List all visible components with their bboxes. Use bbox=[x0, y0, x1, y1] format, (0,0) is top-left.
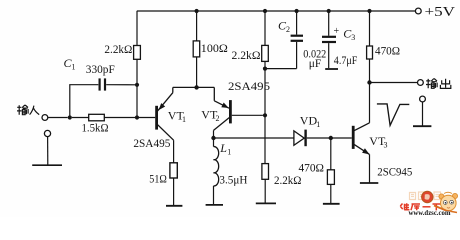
wire: 1.5k to node B bbox=[104, 117, 137, 119]
svg-text:2: 2 bbox=[286, 25, 290, 34]
svg-text:+: + bbox=[334, 26, 340, 37]
terminal +5V bbox=[415, 8, 421, 14]
svg-text:330pF: 330pF bbox=[86, 62, 115, 76]
svg-text:2: 2 bbox=[216, 114, 220, 123]
node: rail junction R4 bbox=[367, 9, 371, 13]
red circle emblem bbox=[422, 191, 433, 202]
resistor R2h 1.5kohm horizontal bbox=[89, 114, 105, 121]
svg-text:2SC945: 2SC945 bbox=[377, 164, 412, 178]
wire: R7 to ground bbox=[264, 179, 266, 203]
svg-text:470Ω: 470Ω bbox=[375, 44, 400, 58]
ground: output bbox=[413, 125, 431, 127]
node: C2 return junction bbox=[263, 67, 267, 71]
watermark: dzsc logo bottom right bbox=[400, 191, 457, 217]
svg-text:1: 1 bbox=[316, 120, 320, 129]
wire: rail down to R1 bbox=[136, 11, 138, 46]
ground: R7 bbox=[256, 202, 276, 204]
wire: rail down to R4 bbox=[369, 11, 371, 46]
ground: input terminal bbox=[44, 130, 50, 136]
resistor R7 2.2kohm bbox=[262, 164, 269, 180]
ground: VT3 emitter bbox=[360, 182, 378, 184]
wire: R1 to node A bbox=[136, 59, 138, 117]
wire: R6 to ground bbox=[173, 178, 175, 206]
ground: R6 bbox=[166, 205, 182, 207]
svg-text:51Ω: 51Ω bbox=[149, 172, 167, 186]
inductor L1 3.5uH bbox=[214, 147, 219, 186]
wire: node C down to R8 bbox=[330, 138, 332, 170]
terminal: output bbox=[418, 80, 424, 86]
light background characters bbox=[410, 192, 441, 200]
label input 输入 bbox=[17, 105, 39, 115]
magnifier handle bbox=[434, 206, 446, 211]
label output 输出 bbox=[426, 79, 451, 89]
wire: bias node down to R7 crossing VD1 row bbox=[264, 115, 266, 163]
capacitor C2 0.022uF bbox=[296, 11, 298, 35]
terminal: input bbox=[42, 115, 48, 121]
svg-text:2.2kΩ: 2.2kΩ bbox=[104, 42, 132, 56]
svg-text:μF: μF bbox=[309, 56, 322, 70]
wire: VD1 anode row bbox=[214, 137, 294, 139]
wire: junction up to C1 row bbox=[70, 85, 99, 118]
wire: junction to R2h bbox=[72, 117, 89, 119]
node: rail junction R3 bbox=[263, 9, 267, 13]
wire: node C to VT3 base bbox=[331, 137, 352, 139]
svg-text:3.5μH: 3.5μH bbox=[219, 173, 247, 187]
svg-text:470Ω: 470Ω bbox=[299, 161, 325, 175]
svg-text:L: L bbox=[219, 141, 227, 155]
ground: R8 bbox=[323, 203, 340, 205]
node C: VD1 / R8 / VT3 base bbox=[329, 136, 333, 140]
resistor R6 51ohm bbox=[170, 163, 177, 178]
wire: R8 to ground bbox=[330, 184, 332, 203]
transistor VT2 2SA495 bbox=[213, 87, 215, 100]
wire: VT3 emitter down bbox=[369, 154, 371, 183]
svg-text:2SA495: 2SA495 bbox=[228, 79, 270, 93]
mascot figure bbox=[439, 194, 444, 199]
node: VT2 base junction bbox=[263, 113, 267, 117]
wire: R3 down to VT2 base node bbox=[264, 61, 266, 115]
wire: output row bbox=[370, 82, 418, 84]
transistor VT3 2SC945 bbox=[352, 126, 355, 149]
wire: VT2 collector down bbox=[213, 130, 215, 146]
node: output junction bbox=[367, 80, 371, 84]
wire: rail down to R3 bbox=[264, 11, 266, 45]
ground: L1 bbox=[206, 204, 223, 206]
wire: VT2 base to bias node bbox=[232, 114, 263, 116]
svg-text:1.5kΩ: 1.5kΩ bbox=[82, 121, 109, 135]
svg-text:2SA495: 2SA495 bbox=[133, 136, 170, 150]
transistor VT1 2SA495 bbox=[155, 106, 158, 130]
waveform symbol bbox=[377, 104, 409, 126]
svg-text:+5V: +5V bbox=[425, 5, 456, 20]
svg-text:1: 1 bbox=[227, 148, 231, 157]
node A: C1 top junction bbox=[135, 83, 139, 87]
svg-text:www.dzsc.com: www.dzsc.com bbox=[409, 208, 452, 217]
wire: +5V top supply rail bbox=[137, 10, 416, 12]
resistor R3 2.2kohm bbox=[262, 45, 269, 61]
resistor R1 2.2kohm bbox=[134, 46, 141, 60]
wire: emitter rail VT1-VT2 bbox=[173, 86, 215, 88]
node: VT2 collector / L1 / VD1 junction bbox=[211, 136, 215, 140]
wire: input to junction bbox=[48, 117, 68, 119]
svg-text:VD: VD bbox=[300, 113, 318, 127]
svg-text:2.2kΩ: 2.2kΩ bbox=[232, 48, 261, 62]
wire: C1 to node A bbox=[106, 84, 137, 86]
svg-text:4.7μF: 4.7μF bbox=[334, 53, 358, 67]
wire: C2 return to bias node bbox=[265, 68, 297, 70]
capacitor C3 4.7uF electrolytic bbox=[328, 11, 330, 36]
diode VD1 bbox=[294, 131, 304, 145]
wire: VT1 collector down to R6 bbox=[173, 140, 175, 163]
svg-text:3: 3 bbox=[351, 33, 355, 42]
wire: R2 to emitter rail bbox=[196, 57, 198, 88]
node: rail junction R2 bbox=[195, 9, 199, 13]
svg-text:1: 1 bbox=[182, 115, 186, 124]
wire: R4 down to output node bbox=[369, 59, 371, 83]
node B: base row junction bbox=[135, 115, 139, 119]
resistor R4 470ohm bbox=[367, 46, 373, 59]
svg-text:1: 1 bbox=[72, 62, 76, 71]
wire: output node down to VT3 collector bbox=[369, 83, 371, 123]
svg-text:2.2kΩ: 2.2kΩ bbox=[274, 173, 302, 187]
wire: R2 100ohm lead from rail bbox=[196, 11, 198, 41]
resistor R8 470ohm bbox=[327, 170, 334, 185]
node: input junction bbox=[68, 115, 72, 119]
red text 维库一下 bbox=[400, 203, 440, 210]
svg-text:100Ω: 100Ω bbox=[201, 41, 228, 55]
capacitor C1 330pF bbox=[100, 78, 105, 90]
wire: VD1 cathode to node C bbox=[307, 137, 331, 139]
wire: node B to VT1 base bbox=[137, 117, 155, 119]
node: emitter rail / R2 junction bbox=[194, 85, 198, 89]
resistor R2 100ohm bbox=[193, 41, 200, 57]
wire: L1 to ground bbox=[213, 186, 215, 205]
svg-text:3: 3 bbox=[384, 141, 388, 150]
terminal: output ground bbox=[420, 96, 426, 102]
ground: C3 bbox=[325, 68, 338, 70]
